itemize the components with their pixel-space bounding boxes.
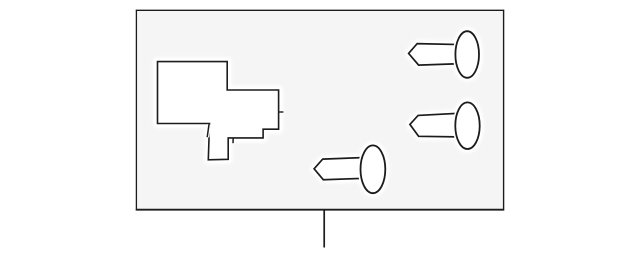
screw 1 head [455, 31, 479, 78]
bracket halo [158, 62, 279, 160]
screw 1 halo [409, 31, 479, 78]
bracket part outline [158, 62, 279, 160]
bracket casing [158, 62, 279, 160]
screw 2 head [455, 102, 479, 149]
screw 2 halo [410, 102, 480, 149]
enclosure box top border [136, 9, 504, 11]
bracket tick bottom [232, 138, 234, 143]
bracket tick inner-left casing [207, 125, 209, 138]
enclosure box fill [136, 10, 503, 210]
enclosure box left border [135, 10, 137, 211]
leader line [323, 210, 325, 247]
bracket tick right [279, 111, 284, 113]
screw 3 halo [314, 145, 385, 193]
enclosure box bottom border [136, 209, 504, 211]
screw 2 shaft [410, 113, 466, 137]
screw 3 shaft [314, 157, 371, 179]
bracket tick inner-left [207, 125, 209, 138]
enclosure box right border [503, 10, 505, 211]
screw 1 shaft [409, 44, 465, 66]
screw 3 head [361, 145, 386, 193]
